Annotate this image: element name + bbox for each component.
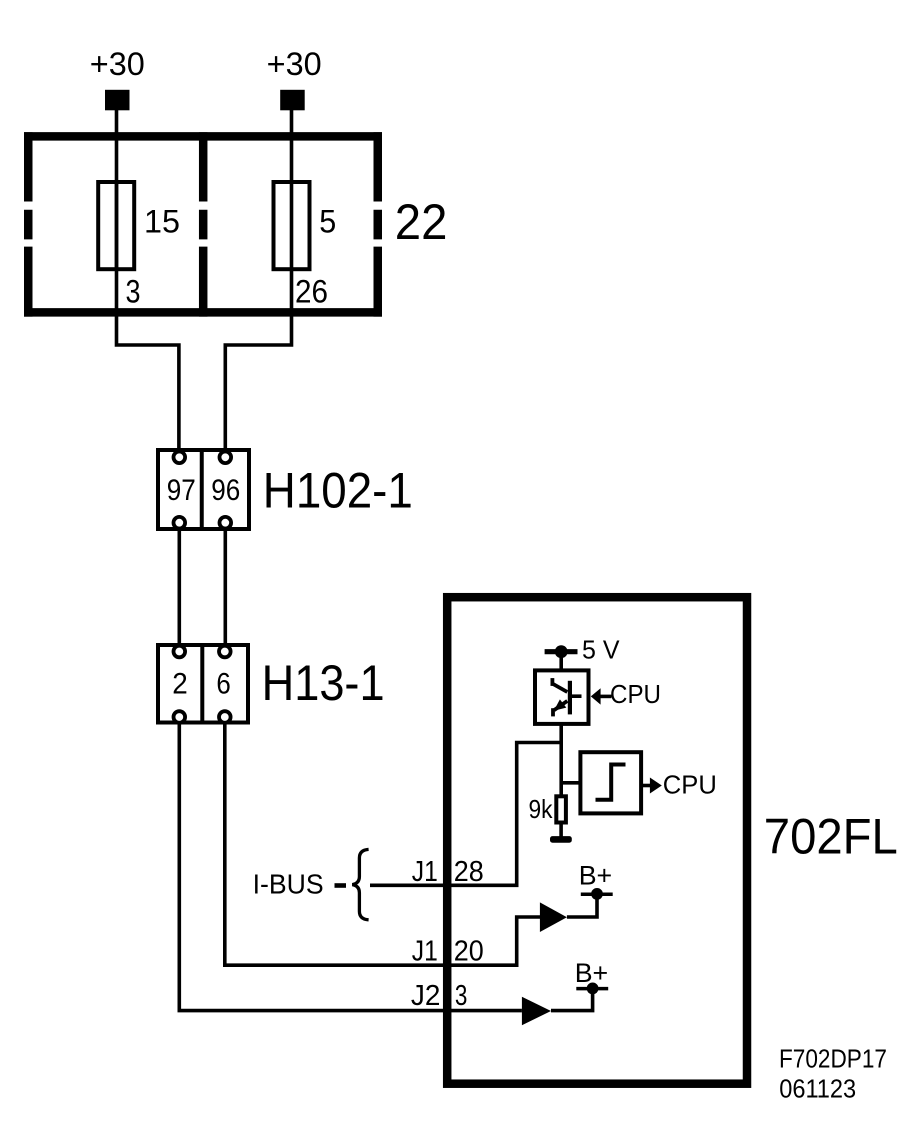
svg-text:H102-1: H102-1 (263, 462, 413, 518)
optocoupler collector stub (551, 678, 555, 686)
svg-text:F702DP17: F702DP17 (779, 1045, 887, 1073)
svg-text:H13-1: H13-1 (262, 655, 385, 711)
svg-text:5: 5 (319, 204, 336, 240)
optocoupler emitter arrowhead (554, 699, 567, 710)
H102-1 pin 96 top circle (220, 452, 232, 464)
optocoupler transistor base bar (568, 681, 572, 715)
H13-1 pin 6 top circle (219, 646, 231, 658)
wire I-BUS node J1 28 riser (370, 743, 561, 886)
wire H102-1 pin 97 to H13-1 pin 2 (178, 529, 182, 645)
B+ bar lower (576, 987, 608, 991)
svg-text:26: 26 (295, 274, 328, 310)
schmitt output line (641, 784, 652, 788)
resistor 9k body (556, 796, 566, 822)
wire H13-1 pin 2 to 702FL J2 pin 3 (179, 722, 522, 1011)
ECU box 702FL (447, 597, 747, 1083)
svg-text:3: 3 (126, 274, 141, 310)
wire tap to schmitt trigger (561, 781, 580, 785)
I-BUS brace (352, 849, 368, 919)
5V supply dot (555, 645, 568, 658)
svg-text:9k: 9k (529, 794, 554, 824)
svg-text:20: 20 (454, 935, 484, 967)
fuse box 22 top border (24, 132, 382, 141)
schmitt output arrowhead (650, 778, 662, 794)
H102-1 pin 97 bottom circle (174, 517, 186, 529)
schmitt trigger step symbol (596, 765, 626, 800)
wire resistor to ground (559, 822, 563, 837)
terminal square +30 left (105, 90, 130, 111)
connector H102-1 body (158, 450, 249, 529)
5V supply bar (545, 649, 578, 654)
H13-1 pin 2 bottom circle (174, 711, 186, 723)
svg-text:+30: +30 (267, 46, 322, 82)
svg-text:6: 6 (216, 668, 230, 701)
wire driver to B+ upper (567, 894, 597, 917)
ground symbol (550, 836, 572, 843)
fuse box 22 right border (dashed) (374, 132, 383, 316)
optocoupler U1 box (535, 670, 589, 724)
optocoupler emitter stub (551, 708, 555, 716)
H13-1 pin 2 top circle (174, 646, 186, 658)
svg-text:CPU: CPU (610, 679, 661, 709)
fuse box 22 bottom border (24, 308, 382, 317)
wire through fuse 15 (115, 182, 119, 269)
wire from +30 right through fuse 5 to H102-1 pin 96 (225, 108, 291, 451)
H102-1 pin 97 top circle (174, 452, 186, 464)
driver triangle lower (522, 997, 551, 1025)
H102-1 pin 96 bottom circle (220, 517, 232, 529)
H13-1 pin 6 bottom circle (219, 711, 231, 723)
svg-text:I-BUS: I-BUS (253, 868, 324, 899)
driver triangle upper (540, 902, 567, 932)
fuse 5 body (274, 182, 310, 269)
B+ dot lower (587, 983, 599, 995)
B+ dot upper (591, 888, 603, 900)
svg-text:2: 2 (172, 668, 188, 701)
CPU arrow line (600, 695, 612, 699)
svg-text:+30: +30 (90, 46, 145, 82)
svg-text:5 V: 5 V (582, 635, 620, 665)
optocoupler base lead (571, 694, 582, 698)
wire H13-1 pin 6 to 702FL J1 pin 20 and up to driver (225, 722, 540, 965)
wire from +30 left through fuse 15 to H102-1 pin 97 (117, 108, 179, 451)
svg-text:96: 96 (211, 474, 240, 507)
svg-text:061123: 061123 (779, 1076, 856, 1104)
svg-text:J1: J1 (412, 935, 438, 967)
optocoupler emitter diagonal (554, 701, 567, 710)
schmitt trigger U2 box (580, 752, 641, 813)
svg-text:3: 3 (455, 980, 468, 1012)
svg-text:J1: J1 (412, 856, 438, 888)
connector H102-1 divider (200, 448, 204, 531)
wire driver to B+ lower (551, 989, 593, 1011)
CPU arrowhead into optocoupler (591, 688, 601, 704)
fuse box 22 middle divider (dashed) (199, 132, 208, 316)
connector H13-1 body (158, 645, 248, 723)
fuse box 22 left border (dashed) (24, 132, 33, 316)
wire 5V to optocoupler (559, 652, 563, 671)
fuse 15 body (98, 182, 134, 269)
connector H13-1 divider (200, 643, 204, 725)
svg-text:28: 28 (454, 856, 484, 888)
optocoupler collector diagonal (552, 683, 567, 692)
B+ bar upper (581, 893, 613, 897)
wire optocoupler emitter down to resistor (559, 724, 563, 796)
svg-text:CPU: CPU (663, 770, 717, 800)
I-BUS dash (335, 883, 347, 888)
wire H102-1 pin 96 to H13-1 pin 6 (224, 529, 228, 645)
svg-text:97: 97 (167, 474, 196, 507)
svg-text:J2: J2 (411, 980, 441, 1012)
terminal square +30 right (280, 90, 305, 111)
svg-text:22: 22 (395, 194, 448, 250)
svg-text:702FL: 702FL (764, 809, 898, 865)
svg-text:15: 15 (144, 204, 180, 240)
svg-text:B+: B+ (579, 860, 613, 890)
